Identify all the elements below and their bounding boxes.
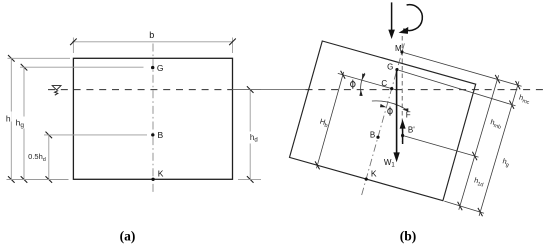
svg-text:K: K — [158, 169, 164, 179]
svg-text:G: G — [157, 63, 164, 73]
svg-text:hg: hg — [501, 156, 511, 168]
svg-text:W1: W1 — [384, 158, 396, 169]
svg-text:b: b — [149, 30, 154, 40]
svg-text:B': B' — [408, 125, 415, 134]
svg-text:F: F — [406, 111, 411, 120]
svg-text:hmc: hmc — [518, 93, 532, 107]
svg-text:C: C — [381, 79, 387, 88]
svg-text:(b): (b) — [400, 229, 417, 244]
svg-text:hmb: hmb — [489, 117, 503, 131]
svg-text:K: K — [371, 168, 377, 178]
svg-text:h: h — [6, 113, 11, 123]
svg-text:h1d: h1d — [473, 175, 486, 188]
svg-text:B: B — [157, 130, 163, 140]
svg-text:M: M — [395, 44, 402, 53]
svg-text:G: G — [387, 62, 393, 71]
svg-text:(a): (a) — [120, 229, 136, 244]
svg-text:B: B — [370, 131, 375, 140]
